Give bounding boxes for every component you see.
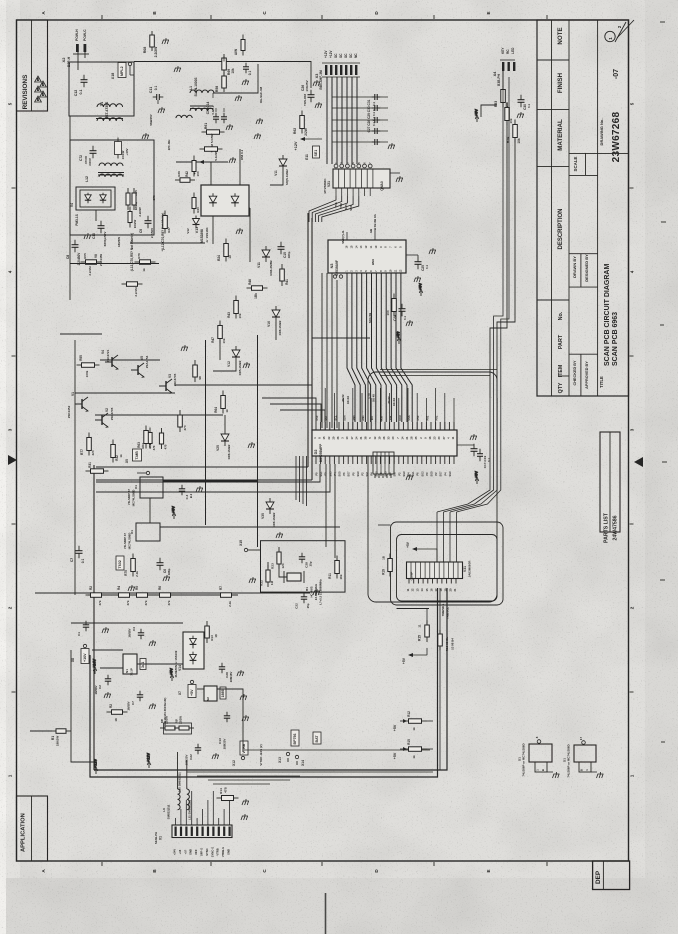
ground near C26 — [315, 102, 322, 108]
svg-text:P41: P41 — [324, 415, 328, 420]
svg-text:1: 1 — [42, 93, 44, 97]
svg-text:1Bk: 1Bk — [254, 293, 258, 299]
svg-text:0.1: 0.1 — [154, 86, 158, 91]
svg-text:21: 21 — [453, 588, 457, 591]
svg-text:100: 100 — [386, 310, 390, 315]
zone numbers left and right margins — [8, 102, 635, 777]
svg-text:20: 20 — [448, 588, 452, 591]
wire X2 into box — [77, 62, 79, 70]
resistor R9b — [174, 726, 194, 730]
+5V arrow mid — [170, 668, 174, 681]
svg-text:18: 18 — [214, 634, 218, 638]
transformer T2 winding lower — [99, 174, 123, 177]
resistor R12 — [404, 719, 427, 724]
svg-text:100k: 100k — [85, 370, 89, 377]
svg-text:0.1: 0.1 — [425, 265, 429, 270]
svg-text:V4: V4 — [70, 203, 74, 207]
svg-text:No.: No. — [558, 311, 564, 320]
svg-text:C32: C32 — [295, 603, 299, 609]
svg-text:1k: 1k — [412, 755, 416, 759]
svg-text:470: 470 — [183, 425, 187, 430]
svg-text:1: 1 — [37, 88, 39, 92]
ground near top rail — [174, 66, 181, 72]
svg-text:DESIGNED BY: DESIGNED BY — [584, 254, 589, 282]
svg-text:HC-49/S: HC-49/S — [310, 586, 314, 597]
svg-text:18: 18 — [439, 588, 443, 591]
svg-text:L11 SM832(S)1: L11 SM832(S)1 — [188, 799, 192, 820]
svg-text:10k: 10k — [231, 68, 235, 74]
svg-text:3: 3 — [8, 428, 13, 431]
svg-text:E: E — [486, 11, 491, 14]
svg-text:XOU: XOU — [398, 415, 402, 421]
capacitor C72 — [90, 146, 97, 159]
svg-text:ATB: ATB — [148, 442, 152, 449]
collector rail upper — [60, 333, 102, 335]
wire N3 to C25 — [406, 254, 418, 256]
svg-text:PART: PART — [558, 334, 564, 349]
svg-text:10k: 10k — [509, 118, 513, 123]
CPU top bus extensions — [324, 388, 326, 430]
psu mid wires — [100, 667, 123, 669]
parts list box — [600, 432, 620, 532]
svg-text:R40: R40 — [196, 207, 200, 213]
svg-text:2SA1754: 2SA1754 — [145, 355, 149, 368]
left rail wire — [69, 116, 71, 300]
svg-text:VTRB-G: VTRB-G — [221, 847, 225, 857]
revision delta triangles — [35, 76, 47, 102]
svg-text:2.2/50V: 2.2/50V — [150, 228, 154, 238]
rail y162 to V13 — [176, 161, 207, 163]
shield box around C12 T1 — [69, 62, 134, 116]
capacitor C28 — [219, 663, 225, 673]
svg-text:E11: E11 — [305, 154, 309, 160]
mid wires — [224, 415, 226, 430]
ground right of V21 — [396, 176, 403, 182]
long vertical x257 — [257, 335, 259, 547]
svg-text:AN0: AN0 — [352, 415, 356, 421]
svg-text:25K1459: 25K1459 — [99, 254, 103, 267]
svg-text:2: 2 — [630, 606, 635, 609]
lower shield box — [70, 140, 154, 235]
svg-text:1k: 1k — [142, 268, 146, 272]
svg-text:+12V: +12V — [94, 759, 98, 768]
svg-text:C12: C12 — [74, 90, 78, 97]
ground right of V13 — [254, 133, 261, 139]
svg-text:MTZ5883C: MTZ5883C — [323, 178, 327, 194]
resistor R55b — [77, 363, 100, 368]
svg-text:6800p/50V: 6800p/50V — [103, 232, 107, 247]
driver enclosure inner box — [397, 535, 498, 602]
svg-text:TRS-908: TRS-908 — [303, 94, 307, 106]
wire psu mid rail — [130, 242, 205, 244]
svg-text:5: 5 — [8, 102, 13, 105]
diode V16 — [272, 306, 280, 322]
+5V rail below N3 — [312, 337, 370, 339]
wire X18 down — [129, 66, 131, 75]
connector X4 pins — [502, 62, 515, 71]
svg-text:L9: L9 — [162, 808, 166, 812]
CPU sub-module box — [373, 452, 394, 474]
svg-text:88 82: 88 82 — [387, 396, 391, 403]
svg-text:+5V: +5V — [190, 689, 194, 696]
svg-text:1PF-MH: 1PF-MH — [167, 140, 171, 151]
resistor R70 — [116, 138, 120, 159]
svg-text:D1: D1 — [134, 485, 138, 489]
svg-text:R76: R76 — [137, 253, 141, 259]
+5V below caps — [475, 471, 479, 484]
wire R55c bus down — [490, 122, 507, 398]
ground cluster mid — [128, 585, 135, 591]
svg-text:100: 100 — [196, 171, 200, 176]
svg-text:S2539A9F: S2539A9F — [335, 260, 339, 276]
diode V11c — [279, 155, 287, 171]
ground right of C4 — [149, 640, 156, 646]
svg-text:T.MB: T.MB — [135, 451, 139, 460]
svg-text:X14: X14 — [301, 760, 305, 766]
svg-text:C4: C4 — [132, 627, 136, 631]
capacitor C9 — [145, 216, 152, 229]
X3 pin name labels — [324, 50, 358, 58]
svg-text:0.1: 0.1 — [527, 104, 531, 109]
svg-text:(MB18 M4 3615E1M): (MB18 M4 3615E1M) — [163, 698, 167, 727]
gate IC D1d — [574, 745, 596, 762]
CPU top pin name labels — [315, 415, 439, 421]
terminal X8 — [83, 644, 86, 647]
svg-text:X2: X2 — [61, 57, 66, 63]
svg-text:BAT: BAT — [315, 735, 319, 743]
box around R8 R9 — [164, 723, 192, 734]
svg-text:R62: R62 — [293, 128, 297, 134]
svg-text:DEP: DEP — [595, 870, 602, 884]
svg-text:188p: 188p — [167, 568, 171, 575]
resistor R38 — [132, 188, 136, 210]
connector X1 pins — [175, 827, 231, 837]
resistor R42 — [192, 156, 196, 177]
svg-text:15p: 15p — [306, 603, 310, 608]
svg-text:C7: C7 — [70, 558, 74, 562]
svg-text:+24V: +24V — [173, 849, 177, 856]
ground near R61 — [229, 157, 236, 163]
svg-text:R6: R6 — [158, 586, 162, 590]
ground near R68 — [162, 38, 169, 44]
svg-text:D2: D2 — [314, 450, 318, 455]
transformer T1 secondary winding — [97, 118, 123, 121]
svg-text:N2: N2 — [206, 697, 210, 701]
rectifier V14 diodes — [190, 636, 197, 649]
svg-text:R37: R37 — [167, 227, 171, 233]
ground crystal area — [313, 589, 320, 595]
svg-text:HM4: HM4 — [371, 259, 375, 265]
svg-text:16: 16 — [430, 588, 434, 591]
CPU D2 body — [312, 430, 457, 456]
svg-text:FINISH: FINISH — [557, 72, 564, 93]
svg-text:GND: GND — [189, 849, 193, 855]
svg-text:56B/25V: 56B/25V — [149, 114, 153, 125]
svg-text:X15: X15 — [239, 540, 243, 546]
svg-text:APPROVED BY: APPROVED BY — [585, 361, 589, 389]
svg-text:C72: C72 — [79, 155, 83, 161]
svg-text:L12: L12 — [85, 176, 89, 182]
decoupling bus wires — [332, 97, 388, 142]
resistor R39 — [175, 178, 195, 183]
svg-text:R63: R63 — [137, 442, 141, 448]
V21 bottom stubs — [335, 188, 337, 196]
svg-text:KEY: KEY — [501, 47, 505, 54]
svg-text:R2: R2 — [89, 586, 93, 590]
svg-text:17: 17 — [579, 737, 583, 741]
diode V12c — [193, 216, 200, 229]
svg-text:P51: P51 — [425, 415, 429, 420]
CPU bottom pin stubs — [315, 456, 317, 464]
svg-text:16k: 16k — [339, 574, 343, 579]
rail y393 — [75, 392, 175, 394]
ground near C24 — [406, 320, 413, 326]
svg-text:R41: R41 — [285, 279, 289, 285]
svg-text:5.1/2W: 5.1/2W — [214, 151, 218, 161]
svg-text:MC74LS86D: MC74LS86D — [128, 533, 132, 550]
resistor R14 — [217, 796, 239, 801]
svg-text:V11: V11 — [274, 170, 278, 176]
wire V13 down right — [249, 208, 251, 262]
inductor L1 — [190, 90, 214, 93]
svg-text:R4: R4 — [117, 586, 121, 590]
svg-text:3: 3 — [630, 428, 635, 431]
ground mid cluster — [243, 362, 250, 368]
inductor L9 — [178, 789, 181, 810]
gate output wires — [163, 480, 258, 482]
svg-text:AIW: AIW — [234, 49, 238, 55]
svg-text:RD6.2MB2: RD6.2MB2 — [269, 260, 273, 276]
transistor V1 — [75, 397, 88, 411]
ground right of C28 — [237, 670, 244, 676]
wire X4 pin1 down — [502, 71, 504, 88]
svg-text:DRAWING No.: DRAWING No. — [599, 119, 604, 146]
svg-text:R55: R55 — [79, 355, 83, 361]
resistor R56b — [241, 35, 245, 56]
svg-text:L1: L1 — [189, 86, 193, 90]
crystal wires — [267, 562, 269, 568]
svg-text:10: 10 — [228, 255, 232, 259]
svg-text:188/2W: 188/2W — [56, 736, 60, 747]
scanner streak bottom centre — [325, 893, 327, 934]
svg-text:PM3-1S: PM3-1S — [75, 214, 79, 226]
resistor R65b — [178, 410, 183, 432]
svg-text:C11: C11 — [149, 87, 153, 93]
svg-text:18: 18 — [114, 718, 118, 722]
connector X3 pins — [325, 65, 357, 75]
resistor R77 — [87, 433, 92, 456]
svg-text:1: 1 — [37, 78, 39, 82]
svg-text:V4: V4 — [101, 350, 105, 354]
+5V arrow at X4 — [475, 109, 479, 122]
zone tick marks top and bottom edges — [102, 15, 547, 866]
svg-text:1k: 1k — [225, 409, 229, 413]
svg-text:X5: X5 — [125, 459, 129, 463]
svg-text:V2: V2 — [105, 408, 109, 412]
svg-text:470: 470 — [152, 445, 156, 450]
svg-text:R47: R47 — [211, 337, 215, 343]
svg-text:180p: 180p — [287, 251, 291, 258]
svg-text:18/58V: 18/58V — [94, 685, 98, 694]
test point E11 — [313, 146, 320, 158]
svg-text:SCAN PCB 6963: SCAN PCB 6963 — [612, 312, 619, 366]
svg-text:100/25V: 100/25V — [305, 80, 309, 91]
capacitor C32 — [301, 593, 307, 603]
driver enclosure outer box — [391, 522, 504, 605]
svg-text:RD5.1MB2: RD5.1MB2 — [238, 360, 242, 375]
svg-text:C22: C22 — [189, 754, 193, 760]
svg-text:PARTS LIST: PARTS LIST — [604, 512, 610, 543]
D1d sub box — [579, 762, 591, 772]
svg-text:E: E — [486, 869, 491, 872]
capacitor C1b — [83, 621, 89, 631]
resistor R19 — [388, 554, 393, 577]
application block inner line — [31, 796, 33, 861]
capacitor C4 — [138, 629, 144, 639]
D1c sub box — [535, 762, 547, 772]
transformer T2 winding upper — [99, 163, 123, 166]
wire rail right — [213, 64, 258, 93]
X3 pin wires — [326, 77, 328, 164]
regulator N2 — [204, 686, 217, 701]
svg-text:R61: R61 — [204, 123, 208, 129]
svg-text:RST: RST — [379, 415, 383, 421]
ground under N2 — [240, 694, 247, 700]
V21 output wires bend — [309, 196, 359, 222]
ground V13 area — [236, 228, 243, 234]
svg-text:N1: N1 — [125, 669, 129, 673]
capacitor C14 — [221, 113, 227, 123]
svg-text:V/TRD -B4S (2): V/TRD -B4S (2) — [259, 744, 263, 765]
svg-text:220: 220 — [91, 450, 95, 455]
svg-text:+5V: +5V — [406, 541, 410, 548]
svg-text:V21: V21 — [327, 181, 331, 187]
svg-text:10k: 10k — [222, 338, 226, 343]
diode array V21 pin circles — [334, 164, 338, 168]
resistor R2b — [86, 593, 107, 598]
svg-text:R31: R31 — [88, 462, 92, 468]
capacitor C3b — [179, 485, 185, 495]
capacitor C11 — [153, 94, 164, 100]
+24V arrow — [93, 659, 97, 674]
diode V25 — [221, 430, 229, 446]
svg-text:B3B-PH: B3B-PH — [497, 73, 501, 86]
resistor R31 — [86, 469, 109, 474]
wire R54 bus down — [497, 139, 515, 398]
wire X13 to bus — [287, 758, 289, 762]
left psu rail — [71, 650, 97, 762]
svg-text:V12: V12 — [186, 228, 190, 234]
resistor R37 — [163, 211, 168, 234]
svg-text:NOTE: NOTE — [557, 27, 564, 44]
svg-text:2.2/1M: 2.2/1M — [134, 287, 138, 297]
terminal X12 — [241, 756, 244, 759]
CPU lower-left wire 2 — [96, 464, 330, 492]
enclosure rail outer — [90, 588, 438, 777]
svg-text:C10: C10 — [92, 233, 96, 239]
svg-text:R1: R1 — [51, 736, 55, 740]
collector rail — [100, 359, 160, 361]
svg-text:47k: 47k — [98, 600, 102, 605]
svg-text:1k: 1k — [412, 727, 416, 731]
svg-text:VTRB: VTRB — [216, 848, 220, 855]
svg-text:B.1: B.1 — [189, 493, 193, 498]
svg-text:SG7: SG7 — [440, 471, 443, 477]
svg-text:+16: +16 — [178, 849, 182, 854]
wire X4 bus down — [494, 71, 503, 398]
rail y263 — [70, 263, 159, 265]
resistor R36c — [128, 207, 132, 228]
svg-text:R15: R15 — [407, 739, 411, 745]
svg-text:R15: R15 — [418, 635, 422, 641]
gate D1a box — [140, 477, 163, 498]
svg-text:X1: X1 — [159, 836, 163, 840]
gate IC D1c — [529, 744, 552, 762]
svg-text:MC74LS86D: MC74LS86D — [132, 490, 136, 507]
svg-text:R75: R75 — [124, 570, 128, 576]
svg-text:TRB/SDA: TRB/SDA — [441, 604, 445, 616]
bus wires bend up right — [437, 398, 501, 512]
svg-text:SG9: SG9 — [403, 471, 406, 477]
resistor R40 — [192, 193, 196, 214]
crystal B1 — [287, 573, 301, 581]
bus bundle to enclosure — [380, 369, 497, 371]
capacitor C33 — [299, 553, 305, 563]
svg-text:+40V: +40V — [125, 148, 129, 155]
ground above caps — [470, 434, 477, 440]
svg-text:2.2/1M: 2.2/1M — [88, 266, 92, 276]
svg-text:R77: R77 — [80, 449, 84, 455]
svg-text:XIN: XIN — [389, 416, 393, 420]
svg-text:15p: 15p — [309, 561, 313, 566]
wire V13 input left — [210, 162, 212, 185]
svg-text:R24: R24 — [217, 255, 221, 261]
svg-text:/400V: /400V — [88, 158, 92, 166]
svg-text:SC: SC — [344, 53, 348, 58]
ground near X3 left — [313, 80, 320, 86]
long vertical bus A — [307, 213, 309, 467]
svg-text:74LS86P 37: 74LS86P 37 — [127, 489, 131, 505]
svg-text:10/2W: 10/2W — [133, 220, 137, 229]
svg-text:2.1k: 2.1k — [135, 571, 139, 577]
wire exit enclosure left — [378, 524, 391, 526]
rectifier V14 box — [183, 632, 204, 669]
capacitor C26 — [308, 90, 315, 103]
wire from left border — [30, 730, 52, 732]
svg-text:SC5: SC5 — [344, 204, 348, 210]
svg-text:N3: N3 — [330, 264, 334, 269]
svg-text:R19: R19 — [382, 569, 386, 575]
DEP block outline — [593, 861, 630, 890]
CPU lower wire to X15 — [325, 464, 327, 547]
svg-text:C27 C28 C29 C30 C31: C27 C28 C29 C30 C31 — [367, 99, 371, 132]
resistor R4 — [114, 593, 135, 598]
resistor R61 — [202, 130, 225, 135]
wire C13 C14 up — [215, 108, 217, 112]
optocoupler V4 diodes — [85, 193, 91, 203]
rail y415 — [95, 414, 223, 416]
resistor row rail — [88, 594, 238, 596]
svg-text:3u1: 3u1 — [141, 662, 145, 668]
resistor R55c — [505, 103, 510, 126]
zone tick marks left and right edges — [12, 188, 634, 692]
svg-text:R14: R14 — [219, 788, 223, 794]
wire V13 down left — [212, 216, 214, 244]
bottom rail y593 — [35, 592, 310, 594]
svg-text:V31: V31 — [463, 566, 467, 572]
resistor R62 — [300, 111, 305, 134]
resistor R62c — [200, 147, 223, 152]
